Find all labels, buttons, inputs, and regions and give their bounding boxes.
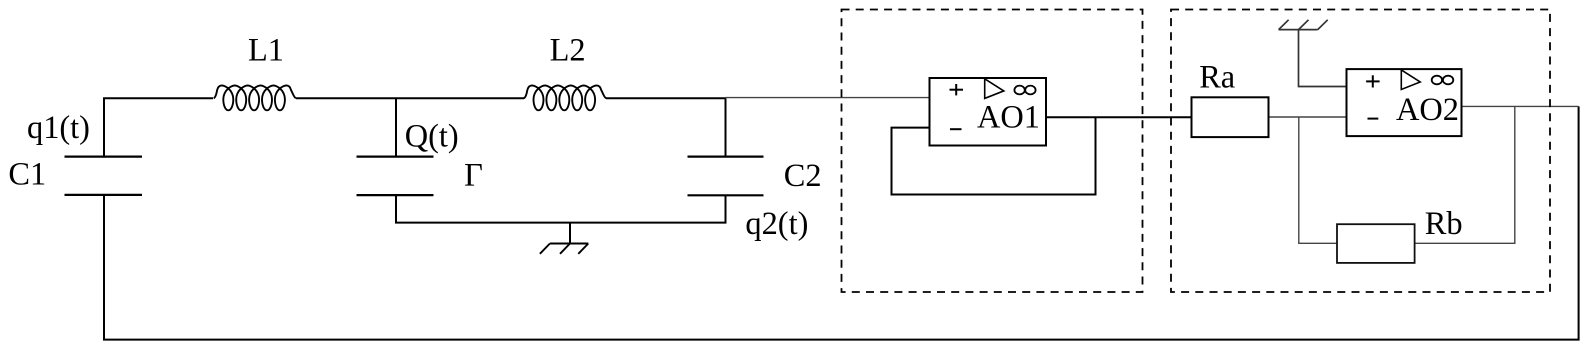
svg-text:AO1: AO1 bbox=[977, 100, 1040, 136]
svg-text:Rb: Rb bbox=[1425, 206, 1463, 242]
svg-text:Q(t): Q(t) bbox=[405, 119, 459, 155]
svg-text:C2: C2 bbox=[784, 158, 822, 194]
svg-text:q1(t): q1(t) bbox=[27, 110, 90, 146]
svg-text:L1: L1 bbox=[248, 32, 284, 68]
svg-text:L2: L2 bbox=[550, 32, 586, 68]
svg-text:Ra: Ra bbox=[1199, 60, 1235, 96]
svg-text:q2(t): q2(t) bbox=[745, 206, 808, 242]
svg-text:C1: C1 bbox=[8, 157, 46, 193]
svg-text:AO2: AO2 bbox=[1396, 92, 1459, 128]
svg-text:Γ: Γ bbox=[464, 157, 483, 193]
